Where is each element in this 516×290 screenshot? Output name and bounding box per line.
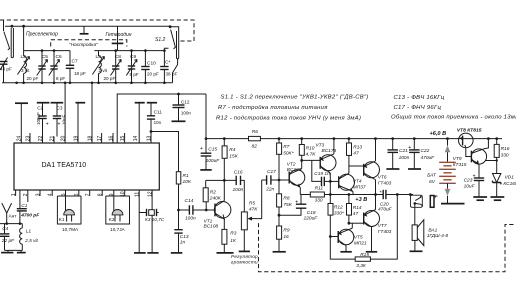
- svg-text:C13: C13: [180, 234, 189, 240]
- svg-text:R1: R1: [183, 173, 189, 179]
- svg-text:330*: 330*: [334, 211, 344, 217]
- svg-text:громкости: громкости: [231, 260, 258, 265]
- svg-text:C20: C20: [380, 201, 389, 207]
- svg-text:C6: C6: [56, 54, 62, 60]
- svg-text:470uF: 470uF: [378, 206, 393, 212]
- svg-text:C5: C5: [42, 54, 48, 60]
- svg-text:R6: R6: [252, 129, 258, 135]
- svg-text:4700 pF: 4700 pF: [20, 213, 40, 219]
- svg-text:R5: R5: [249, 201, 255, 207]
- svg-text:470uF: 470uF: [421, 155, 436, 161]
- svg-text:10uF: 10uF: [464, 184, 476, 190]
- svg-text:+: +: [46, 122, 49, 128]
- svg-text:ГТ403: ГТ403: [378, 229, 392, 235]
- svg-text:47K: 47K: [249, 207, 258, 213]
- svg-text:15K: 15K: [229, 153, 238, 159]
- svg-text:R14: R14: [353, 205, 362, 211]
- svg-text:6V: 6V: [429, 179, 436, 185]
- svg-text:16: 16: [108, 136, 114, 142]
- svg-text:VT8 КТ815: VT8 КТ815: [457, 128, 482, 134]
- svg-text:4,7K: 4,7K: [306, 151, 317, 157]
- svg-text:C10: C10: [147, 60, 156, 66]
- svg-text:C*: C*: [165, 59, 170, 65]
- svg-text:10,7JA: 10,7JA: [110, 227, 125, 232]
- svg-text:DA1 TEA5710: DA1 TEA5710: [42, 162, 87, 169]
- svg-text:22: 22: [38, 136, 44, 142]
- svg-text:100n: 100n: [399, 155, 410, 161]
- svg-text:BC108: BC108: [204, 224, 219, 230]
- svg-text:1n: 1n: [180, 239, 186, 245]
- svg-text:100uF: 100uF: [36, 112, 41, 125]
- svg-text:50K*: 50K*: [283, 150, 294, 156]
- svg-text:20 pF: 20 pF: [104, 76, 116, 81]
- svg-text:КТ315: КТ315: [453, 162, 467, 168]
- svg-text:R12 - подстройка тока покоя УН: R12 - подстройка тока покоя УНЧ (у меня …: [216, 114, 361, 121]
- svg-text:L3: L3: [96, 54, 102, 60]
- svg-text:BC108: BC108: [287, 167, 302, 173]
- svg-text:C4: C4: [2, 226, 8, 232]
- svg-text:R15: R15: [360, 252, 369, 258]
- svg-text:+: +: [473, 173, 476, 179]
- svg-text:R13: R13: [353, 144, 362, 150]
- svg-text:C15: C15: [208, 146, 217, 152]
- svg-text:10K: 10K: [183, 179, 192, 185]
- svg-text:VT9: VT9: [453, 156, 462, 162]
- svg-text:24: 24: [17, 136, 23, 142]
- svg-text:VT6: VT6: [378, 174, 387, 180]
- svg-text:R4: R4: [229, 147, 235, 153]
- svg-text:17: 17: [97, 136, 103, 142]
- svg-text:+3 В: +3 В: [355, 197, 367, 203]
- svg-text:21: 21: [49, 136, 55, 142]
- svg-text:"Настройка": "Настройка": [69, 41, 98, 48]
- svg-text:19: 19: [73, 136, 79, 142]
- svg-text:БАТ: БАТ: [427, 173, 437, 179]
- svg-text:K2: K2: [109, 217, 115, 222]
- svg-text:+6,0 В: +6,0 В: [430, 131, 447, 137]
- svg-text:47: 47: [353, 151, 359, 157]
- svg-text:R16: R16: [501, 146, 510, 152]
- svg-text:1ГДШ-4-8: 1ГДШ-4-8: [427, 233, 449, 239]
- svg-text:43 pF: 43 pF: [0, 67, 12, 72]
- svg-text:10uF: 10uF: [62, 114, 67, 125]
- svg-text:C22: C22: [421, 148, 430, 154]
- svg-text:75K: 75K: [283, 202, 292, 208]
- svg-text:VT1: VT1: [204, 218, 213, 224]
- svg-text:100n: 100n: [233, 187, 244, 193]
- svg-text:C3: C3: [57, 106, 63, 111]
- svg-text:2 vit: 2 vit: [99, 68, 108, 73]
- svg-text:К3 10,7С: К3 10,7С: [145, 217, 165, 222]
- svg-text:2,5 vit: 2,5 vit: [24, 238, 38, 244]
- svg-text:L1: L1: [26, 228, 32, 234]
- svg-text:VT5: VT5: [354, 235, 363, 241]
- svg-text:18: 18: [87, 136, 93, 142]
- svg-text:+: +: [295, 200, 298, 206]
- svg-text:20 pF: 20 pF: [147, 71, 159, 76]
- svg-text:Ант: Ант: [9, 214, 18, 219]
- svg-text:МП37: МП37: [353, 184, 366, 190]
- svg-text:L2: L2: [21, 54, 27, 60]
- svg-text:Преселектор: Преселектор: [26, 31, 58, 37]
- svg-text:R7 - подстройка половины пита: R7 - подстройка половины питания: [218, 104, 328, 111]
- svg-text:R2: R2: [210, 189, 216, 195]
- svg-text:BC178: BC178: [322, 148, 337, 154]
- svg-text:16: 16: [283, 234, 289, 240]
- svg-text:C21: C21: [399, 148, 408, 154]
- svg-text:R11: R11: [315, 186, 324, 192]
- svg-text:C16: C16: [234, 170, 243, 176]
- svg-text:C11: C11: [154, 109, 163, 114]
- svg-text:VT3: VT3: [315, 143, 324, 149]
- svg-text:100uF: 100uF: [206, 158, 221, 164]
- svg-text:20: 20: [60, 136, 66, 142]
- svg-text:100n: 100n: [185, 215, 196, 221]
- svg-text:R9: R9: [283, 228, 289, 234]
- svg-text:С17 - ФНЧ 96Гц: С17 - ФНЧ 96Гц: [394, 105, 442, 111]
- svg-text:8 pF: 8 pF: [130, 72, 139, 77]
- svg-text:K1: K1: [59, 217, 65, 222]
- svg-text:330: 330: [501, 152, 509, 158]
- svg-text:R10: R10: [306, 145, 315, 151]
- svg-text:С13 - ФВЧ 16КГц: С13 - ФВЧ 16КГц: [394, 95, 445, 101]
- svg-text:240K: 240K: [209, 196, 222, 202]
- svg-text:C1: C1: [21, 203, 27, 209]
- svg-text:+: +: [58, 122, 61, 128]
- svg-text:82: 82: [252, 143, 258, 149]
- svg-text:ВА1: ВА1: [428, 227, 437, 233]
- svg-text:VT7: VT7: [378, 223, 387, 229]
- svg-text:23: 23: [25, 136, 31, 142]
- svg-text:3 vit: 3 vit: [21, 68, 30, 73]
- svg-text:КС168А: КС168А: [503, 181, 516, 187]
- svg-text:R3: R3: [230, 231, 236, 237]
- svg-text:Регулятор: Регулятор: [231, 254, 258, 259]
- svg-text:VT2: VT2: [287, 162, 296, 168]
- svg-text:22 pF: 22 pF: [1, 238, 15, 244]
- svg-text:10,7МА: 10,7МА: [62, 227, 79, 232]
- svg-text:13: 13: [146, 136, 152, 142]
- svg-text:100n: 100n: [181, 111, 192, 116]
- svg-text:VD1: VD1: [505, 175, 515, 181]
- svg-text:C2: C2: [37, 106, 43, 111]
- svg-text:R8: R8: [283, 196, 289, 202]
- svg-text:38 pF: 38 pF: [166, 71, 178, 76]
- svg-text:C19 1n: C19 1n: [314, 171, 330, 177]
- svg-text:S1.2: S1.2: [155, 37, 166, 43]
- svg-text:C8: C8: [115, 54, 121, 60]
- svg-text:МП21: МП21: [354, 241, 367, 247]
- svg-text:15: 15: [120, 136, 126, 142]
- svg-text:VT4: VT4: [353, 178, 362, 184]
- svg-text:S1.1 - S1.2 переключе: S1.1 - S1.2 переключение "УКВ1-УКВ2" ("Д…: [221, 95, 369, 101]
- svg-text:C17: C17: [267, 169, 276, 175]
- svg-text:10n: 10n: [154, 120, 162, 125]
- svg-text:18 pF: 18 pF: [74, 71, 86, 76]
- svg-text:Общий ток покоя приемника - ок: Общий ток покоя приемника - около 13мА: [391, 113, 516, 120]
- svg-text:330: 330: [315, 198, 323, 204]
- svg-text:22n: 22n: [265, 187, 274, 193]
- svg-text:8 pF: 8 pF: [56, 76, 65, 81]
- svg-text:C7: C7: [72, 59, 78, 65]
- svg-text:220uF: 220uF: [303, 215, 319, 221]
- svg-text:C14: C14: [185, 198, 194, 204]
- svg-text:C18: C18: [307, 210, 316, 216]
- svg-text:C12: C12: [181, 99, 190, 104]
- svg-text:R12: R12: [334, 205, 343, 211]
- svg-text:20 pF: 20 pF: [27, 76, 39, 81]
- svg-text:+: +: [200, 146, 203, 152]
- svg-text:Гетеродин: Гетеродин: [106, 32, 132, 38]
- svg-text:ГТ403: ГТ403: [378, 181, 392, 187]
- svg-text:R7: R7: [283, 144, 289, 150]
- svg-text:C23: C23: [464, 178, 473, 184]
- svg-text:C9: C9: [130, 54, 136, 60]
- svg-text:47: 47: [353, 211, 359, 217]
- svg-text:+: +: [408, 145, 411, 151]
- svg-text:14: 14: [133, 136, 139, 142]
- svg-text:3,3К: 3,3К: [356, 263, 367, 269]
